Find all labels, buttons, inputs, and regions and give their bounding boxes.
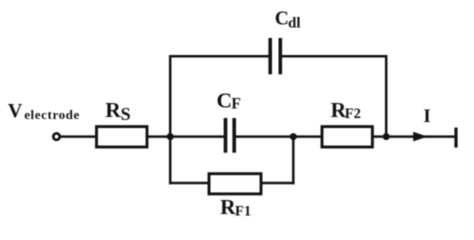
label R_F1 — [220, 195, 251, 219]
svg-text:C: C — [275, 9, 289, 30]
wire: bottom branch right vertical leg up to node B — [292, 137, 295, 185]
svg-text:dl: dl — [288, 15, 301, 31]
resistor R_F2 — [322, 127, 372, 147]
capacitor C_dl — [270, 38, 280, 74]
svg-text:V: V — [8, 100, 23, 122]
wire: terminal to R_S — [61, 135, 98, 138]
resistor R_S — [97, 127, 148, 147]
node C junction dot — [383, 133, 390, 140]
svg-text:R: R — [105, 98, 121, 122]
wire: bottom branch left horizontal — [169, 182, 210, 185]
label R_S — [105, 98, 130, 124]
wire: top branch right segment — [282, 55, 387, 58]
wire: middle branch, node A to C_F — [170, 135, 224, 138]
output terminal bar — [454, 128, 457, 148]
wire: middle branch, C_F to node B — [236, 135, 294, 138]
node V_electrode input terminal — [53, 133, 59, 139]
label R_F2 — [331, 98, 361, 122]
wire: R_F2 to node C — [372, 135, 387, 138]
wire: top branch right vertical leg down to node C — [385, 55, 388, 138]
wire: node B to R_F2 — [293, 135, 323, 138]
label I — [423, 106, 430, 127]
resistor R_F1 — [209, 174, 261, 194]
label V_electrode — [8, 100, 80, 122]
wire: bottom branch right horizontal — [261, 182, 295, 185]
wire: top branch left segment — [169, 55, 269, 58]
svg-text:C: C — [217, 88, 233, 112]
current arrow I — [413, 132, 427, 142]
svg-text:R: R — [220, 195, 236, 219]
node B junction dot — [290, 133, 297, 140]
svg-text:electrode: electrode — [24, 107, 80, 122]
node A junction dot — [167, 133, 174, 140]
svg-text:S: S — [121, 104, 131, 124]
svg-text:F1: F1 — [235, 204, 251, 220]
svg-text:I: I — [423, 106, 430, 127]
wire: vertical branch leg at node A (up to top branch, down to bottom branch) — [169, 55, 172, 184]
label C_F — [217, 88, 241, 112]
wire: node C to output terminal — [386, 135, 456, 138]
wire: R_S to node A — [147, 135, 172, 138]
svg-text:F2: F2 — [345, 106, 361, 122]
svg-text:F: F — [231, 96, 240, 113]
label C_dl — [275, 9, 301, 32]
capacitor C_F — [226, 118, 235, 153]
